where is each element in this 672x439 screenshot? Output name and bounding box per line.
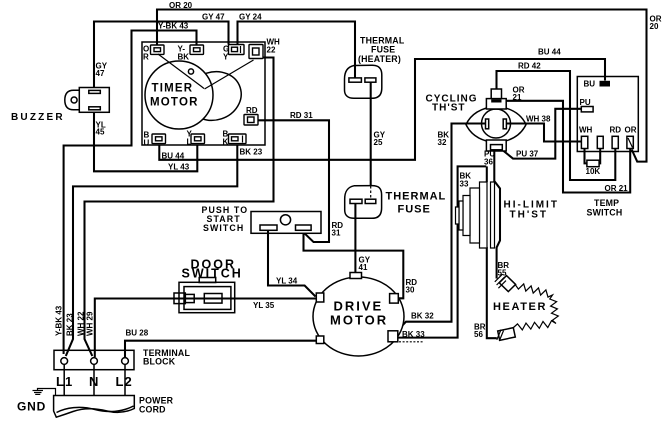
wire GY-25 (thermal fuse heater to lower thermal fuse) — [370, 83, 372, 200]
svg-text:BLOCK: BLOCK — [143, 357, 176, 367]
wire WH-38 (cycling thermostat to temp switch WH) — [506, 124, 581, 142]
svg-text:WH: WH — [579, 126, 593, 135]
svg-text:BUZZER: BUZZER — [11, 112, 65, 123]
svg-text:TH'ST: TH'ST — [432, 103, 466, 114]
svg-text:45: 45 — [96, 128, 105, 137]
thermal fuse (heater) body — [345, 65, 382, 98]
svg-text:PU: PU — [580, 98, 591, 107]
timer motor circle — [145, 61, 213, 129]
label CYCLING TH'ST — [426, 93, 478, 113]
label L1 N L2 — [56, 374, 133, 389]
wire BK-32 (drive motor to cycling thermostat) — [398, 124, 486, 331]
label HI-LIMIT TH'ST — [504, 200, 559, 221]
svg-text:WH 29: WH 29 — [86, 311, 95, 336]
svg-text:FUSE: FUSE — [371, 45, 395, 55]
svg-text:HEATER: HEATER — [493, 301, 547, 313]
svg-text:32: 32 — [438, 138, 447, 147]
temp switch OR terminal — [625, 126, 637, 149]
timer terminal YL — [187, 130, 205, 147]
svg-text:BK 33: BK 33 — [402, 330, 425, 339]
svg-text:GND: GND — [17, 400, 46, 414]
label BR 56 — [474, 323, 486, 340]
timer terminal BK — [223, 130, 247, 147]
label RD 30 — [406, 278, 418, 295]
svg-text:RD 31: RD 31 — [290, 111, 313, 120]
timer box — [142, 42, 265, 145]
svg-text:OR: OR — [625, 126, 637, 135]
wire BU-44 (timer BU terminal down, right, up, right to temp switch BU) — [159, 59, 605, 160]
label DOOR SWITCH — [182, 258, 243, 281]
power cord — [54, 396, 135, 418]
svg-text:BU 28: BU 28 — [126, 329, 149, 338]
svg-text:22: 22 — [267, 45, 276, 54]
svg-text:36: 36 — [484, 157, 493, 166]
label TIMER MOTOR — [150, 83, 199, 109]
ground symbol — [33, 391, 44, 395]
svg-text:SWITCH: SWITCH — [203, 223, 244, 233]
svg-text:DRIVE: DRIVE — [334, 299, 384, 314]
wire PU-37 (cycling thermostat bottom to temp switch PU) — [503, 109, 581, 159]
svg-text:41: 41 — [359, 263, 368, 272]
svg-text:BU 44: BU 44 — [162, 151, 185, 160]
svg-text:GY 47: GY 47 — [202, 12, 225, 21]
wire GY-41 (lower thermal fuse to drive motor top) — [354, 204, 356, 273]
label THERMAL FUSE (lower) — [386, 191, 447, 216]
timer contact pivot — [188, 69, 193, 74]
svg-text:R: R — [143, 53, 149, 62]
svg-text:YL 35: YL 35 — [253, 301, 275, 310]
label YL 45 (buzzer) — [96, 120, 106, 136]
svg-text:YL 34: YL 34 — [276, 276, 298, 285]
label DRIVE MOTOR — [330, 299, 388, 328]
hi-limit thermostat — [456, 182, 495, 248]
wire Y-BK-43 (timer Y-BK terminal, left, down to terminal block) — [64, 31, 197, 355]
label PUSH TO START SWITCH — [202, 205, 249, 233]
svg-text:MOTOR: MOTOR — [330, 313, 388, 328]
temp switch box — [577, 77, 638, 152]
label OR 21 (cycling) — [513, 86, 525, 103]
svg-text:BU: BU — [584, 80, 596, 89]
timer terminal WH — [249, 45, 263, 59]
svg-text:56: 56 — [474, 330, 483, 339]
label GY 41 — [359, 256, 371, 273]
timer terminal OR — [143, 45, 164, 62]
heater element — [514, 284, 559, 330]
label RD 31 (push-to-start) — [332, 221, 344, 238]
svg-text:RD 42: RD 42 — [518, 62, 541, 71]
svg-text:TIMER: TIMER — [152, 83, 194, 95]
wire YL-43 / YL-45 (buzzer bottom down, right to timer YL terminal) — [94, 112, 197, 171]
wire BK-23 (timer BK terminal down, left, down to terminal block L1) — [66, 145, 238, 356]
svg-text:L2: L2 — [116, 374, 133, 389]
label BK 32 (cycling) — [438, 130, 450, 147]
wire RD-30 (push-to-start switch down, right, down to drive motor) — [304, 233, 404, 298]
wire BU-28 (terminal block L2 up, right to drive motor) — [125, 341, 316, 357]
wire YL-35 (door switch through to drive motor) — [174, 297, 316, 299]
svg-text:CORD: CORD — [139, 405, 166, 415]
svg-text:WH 38: WH 38 — [526, 115, 551, 124]
wire RD-42 (cycling thermostat top to temp switch RD) — [497, 71, 616, 180]
ground wire — [38, 389, 56, 396]
wire YL-34 (push-to-start switch left terminal to drive motor) — [268, 231, 316, 297]
door switch — [174, 278, 235, 313]
svg-text:20: 20 — [650, 22, 659, 31]
wire WH-29 (terminal block N up, right to door switch) — [95, 299, 174, 358]
svg-text:RD: RD — [246, 106, 258, 115]
svg-text:21: 21 — [513, 93, 522, 102]
thermal fuse (lower) body — [345, 186, 382, 219]
svg-text:L: L — [187, 137, 192, 146]
label POWER CORD — [139, 396, 174, 415]
svg-text:SWITCH: SWITCH — [182, 267, 243, 281]
timer contact arm 1 — [158, 54, 204, 89]
wire GY-24 (timer G terminal to thermal fuse heater) — [238, 22, 356, 79]
svg-text:10K: 10K — [586, 167, 601, 176]
svg-text:YL 43: YL 43 — [168, 163, 190, 172]
push-to-start switch — [251, 212, 321, 234]
label GY 25 — [374, 131, 386, 148]
label WH 22 (timer) — [267, 38, 281, 55]
wire RD-31 (timer RD terminal right, down to push-to-start switch) — [258, 120, 329, 242]
resistor 10K — [585, 149, 601, 176]
buzzer — [65, 88, 110, 113]
svg-text:Y-BK 43: Y-BK 43 — [158, 22, 189, 31]
svg-text:BU 44: BU 44 — [538, 48, 561, 57]
wire WH-22 (timer WH terminal right, down, left, down to terminal block N) — [85, 58, 274, 357]
timer terminal Y-BK — [178, 45, 204, 62]
svg-text:BK: BK — [178, 53, 190, 62]
svg-text:TH'ST: TH'ST — [510, 210, 549, 221]
svg-text:K: K — [223, 137, 229, 146]
svg-text:Y-BK 43: Y-BK 43 — [55, 305, 64, 336]
temp switch RD terminal — [610, 126, 622, 149]
svg-text:Y: Y — [223, 53, 229, 62]
label PU 36 — [484, 150, 495, 167]
timer terminal GY — [223, 45, 244, 62]
svg-text:MOTOR: MOTOR — [150, 97, 199, 109]
svg-text:GY 24: GY 24 — [239, 12, 262, 21]
heater terminal BR-55 — [495, 274, 516, 291]
svg-text:30: 30 — [406, 285, 415, 294]
svg-text:47: 47 — [96, 69, 105, 78]
label TERMINAL BLOCK — [143, 348, 190, 367]
timer contact arm 2 — [205, 60, 254, 89]
svg-text:BK 23: BK 23 — [240, 147, 263, 156]
svg-text:33: 33 — [460, 179, 469, 188]
svg-text:SWITCH: SWITCH — [587, 208, 623, 218]
temp switch PU terminal — [580, 98, 594, 112]
wire BK-33 (drive motor to hi-limit thermostat) — [398, 166, 486, 341]
label OR 20 (right edge) — [650, 15, 662, 32]
wire GY-47 (buzzer top to timer G terminal) — [94, 22, 229, 88]
svg-text:WH 22: WH 22 — [77, 311, 86, 336]
timer terminal RD — [244, 106, 258, 125]
wire to heater BR56 (hi-limit left leg down to lower heater terminal) — [481, 166, 497, 338]
heater terminal BR-56 — [497, 328, 516, 341]
terminal block — [54, 350, 134, 369]
temp switch WH terminal — [579, 126, 593, 149]
svg-text:(HEATER): (HEATER) — [358, 54, 401, 64]
wires terminal block to power cord — [64, 365, 125, 397]
svg-text:BK 23: BK 23 — [66, 313, 75, 336]
label GY 47 (buzzer) — [96, 62, 108, 78]
wire PU-36 (cycling thermostat bottom to hi-limit / heater BR55) — [494, 151, 500, 279]
label THERMAL FUSE (HEATER) — [358, 36, 405, 65]
svg-text:31: 31 — [332, 229, 341, 238]
timer cam — [180, 65, 247, 128]
timer terminal BU — [144, 131, 166, 148]
svg-text:BK 32: BK 32 — [411, 312, 434, 321]
svg-text:25: 25 — [374, 138, 383, 147]
wire OR-20 (timer OR terminal, across top, down right edge to temp switch) — [157, 10, 647, 162]
wire OR-21 (cycling thermostat top box to temp switch OR) — [506, 101, 631, 193]
svg-text:PU 37: PU 37 — [516, 150, 539, 159]
svg-text:OR 20: OR 20 — [169, 1, 193, 10]
svg-text:U: U — [144, 138, 150, 147]
drive motor — [313, 273, 404, 357]
label BK 33 (hi-limit) — [460, 172, 472, 189]
svg-text:TEMP: TEMP — [594, 198, 619, 208]
temp switch BU terminal — [584, 80, 611, 89]
svg-text:OR 21: OR 21 — [605, 184, 629, 193]
svg-text:THERMAL: THERMAL — [386, 191, 447, 203]
label BR 55 — [498, 261, 510, 278]
svg-text:55: 55 — [498, 269, 507, 278]
cycling thermostat body — [466, 89, 526, 151]
label TEMP SWITCH — [587, 198, 623, 218]
svg-text:RD: RD — [610, 126, 622, 135]
temp switch terminal 2 — [597, 136, 603, 148]
svg-text:FUSE: FUSE — [398, 204, 431, 216]
